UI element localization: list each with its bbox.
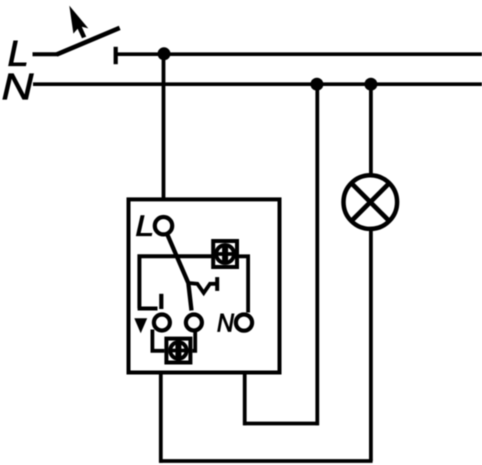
wire: N run to switch unit <box>243 422 319 426</box>
spring end tick <box>215 277 219 291</box>
wire: N bus down to lamp <box>369 84 373 174</box>
wire: inner rail to screw terminal <box>139 256 213 308</box>
screw terminal T2 (bottom) <box>166 339 190 363</box>
wire: terminal B to screw T2 <box>192 331 195 351</box>
junction dot on N bus (left) <box>310 78 323 91</box>
N bus line <box>33 82 482 86</box>
mouse cursor pointer <box>69 6 88 39</box>
junction dot on N bus (right, lamp) <box>364 78 377 91</box>
spring (actuator) <box>188 283 216 293</box>
label L (phase) <box>9 41 26 66</box>
L bus line <box>114 52 482 56</box>
indicator triangle <box>134 318 147 333</box>
wire: lamp bottom down <box>369 229 373 461</box>
label L (inside unit) <box>136 216 151 236</box>
wire: N rise into switch unit <box>243 373 247 426</box>
switch unit enclosure box <box>129 199 280 372</box>
wire: screw T1 to terminal N <box>239 256 248 312</box>
wire: terminal A to screw T2 <box>152 330 164 351</box>
switch S1 fixed contact tick <box>114 47 118 64</box>
junction dot on L bus <box>158 47 171 60</box>
wire: L bus down to switch unit <box>162 54 166 201</box>
terminal circle B <box>186 315 202 331</box>
label N (inside unit) <box>218 314 234 332</box>
wire: switch unit bottom terminal drop <box>159 373 163 463</box>
screw terminal T1 (top right) <box>213 241 237 267</box>
lamp E1 <box>344 175 398 229</box>
terminal circle N (inside unit) <box>236 315 252 331</box>
wire: rail lower stub <box>138 307 158 311</box>
label N (neutral) <box>3 74 34 99</box>
fixed contact tick above terminal A <box>159 294 163 309</box>
switch blade inside unit <box>168 235 192 311</box>
wire: L feed stub <box>33 52 58 56</box>
switch S1 blade (open) <box>57 28 120 55</box>
wire: N drop from bus <box>315 84 319 425</box>
terminal circle L (top) <box>155 217 172 234</box>
wire: bottom run to switch unit <box>159 459 373 463</box>
terminal circle A <box>154 315 170 331</box>
